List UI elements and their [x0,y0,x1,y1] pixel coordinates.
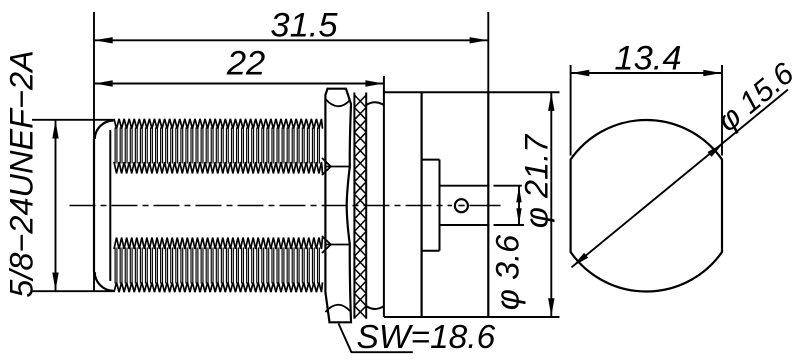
extension line right face x=488 [487,12,489,92]
cap rounded corner top [95,121,114,140]
centerline [70,205,453,207]
dimension 5/8-24UNEF-2A line [55,120,57,291]
body step lower edge [422,250,440,252]
extension line thread bottom [32,290,114,292]
hex nut chamfer arc bottom [325,305,350,312]
svg-text:SW=18.6: SW=18.6 [357,319,496,356]
cap rounded corner bottom [95,272,114,291]
dimension 13.4 line [571,72,722,74]
svg-text:31.5: 31.5 [270,6,338,44]
thread upper root zigzag [114,162,323,174]
svg-text:5/8−24UNEF−2A: 5/8−24UNEF−2A [4,50,40,298]
gasket bottom arc [366,306,384,309]
thread upper crest zigzag [114,119,323,129]
extension + flange left edge [383,76,385,317]
svg-text:φ 21.7: φ 21.7 [519,133,555,228]
thread upper flank lines [115,128,319,164]
thread runout V upper [322,158,331,175]
lock washer left edge [353,93,355,319]
lock washer serration cross hatch [354,95,366,318]
dimension dia3.6 line [518,186,520,225]
left face of cable-entry cap [93,139,95,272]
extension line flat left [570,65,572,156]
dimension 31.5 line [94,39,488,41]
svg-text:φ 3.6: φ 3.6 [490,234,526,310]
flange right edge [421,92,423,317]
thread lower crest zigzag [114,282,323,292]
hex nut face boundary upper [325,166,349,168]
svg-text:22: 22 [226,44,265,82]
end view outline (circle with flats) [571,120,722,291]
thread lower root zigzag [114,238,323,250]
extension line thread top [32,119,114,121]
body step vertical [439,160,441,251]
lock washer right edge [365,93,367,319]
flange/body top edge + dia21.7 extension [384,91,560,93]
dimension dia15.6 diagonal line [572,90,789,268]
body step upper edge [422,159,440,161]
gasket top arc [366,102,384,105]
thread runout V lower [322,236,331,253]
cap inner edge [109,130,111,281]
pin upper edge [440,185,490,187]
hex nut face boundary lower [325,244,349,246]
SW leader line [339,324,413,353]
extension line flat right [721,65,723,156]
pin cross hole [455,199,468,212]
thread lower flank lines [115,248,319,284]
hex nut chamfer arc top [325,99,350,106]
pin lower edge + dia3.6 extension [440,224,490,226]
dimension dia21.7 line [550,92,552,317]
flange/body bottom edge + dia21.7 extension [384,316,560,318]
hex nut outline [325,89,351,323]
extension line left face x=94 [93,12,95,139]
svg-text:13.4: 13.4 [614,40,681,78]
dimension 22 line [94,83,384,85]
body right face [487,92,489,317]
